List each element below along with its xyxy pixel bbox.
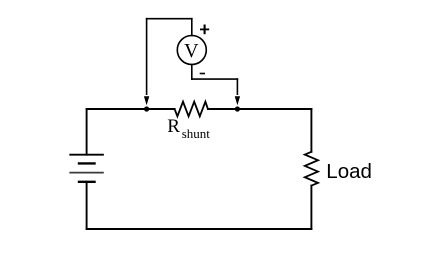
wire bottom rail [87,228,312,230]
wire top rail right segment [208,108,312,110]
wire right rail upper segment [310,109,312,152]
wire top rail left segment [87,108,175,110]
plus sign horizontal stroke [200,28,209,30]
battery top plate (long, positive) [70,154,103,156]
wire voltmeter top lead up [191,19,193,36]
resistor Load zigzag [305,152,318,186]
svg-text:R: R [167,116,180,137]
svg-text:Load: Load [326,160,372,183]
junction node dot left [144,106,149,111]
wire left rail upper segment [86,109,88,155]
minus sign [200,73,205,75]
wire voltmeter top horizontal [147,18,192,20]
wire left rail lower segment [86,182,88,229]
resistor R_shunt zigzag [175,102,208,117]
svg-text:V: V [184,40,199,62]
battery third plate (long, positive) [70,172,103,174]
wire voltmeter bottom lead down [191,65,193,80]
wire right rail lower segment [310,186,312,229]
wire voltmeter right lead down [236,79,238,94]
wire voltmeter left lead down [146,19,148,95]
wire voltmeter bottom horizontal [192,78,238,80]
svg-text:shunt: shunt [182,126,211,141]
battery second plate (short, negative) [79,162,95,164]
battery bottom plate (short, negative) [79,181,95,183]
voltmeter circle U1 [177,36,206,65]
plus sign vertical stroke [204,25,206,35]
probe arrow right [235,96,240,105]
probe arrow left [144,96,149,105]
junction node dot right [235,106,240,111]
